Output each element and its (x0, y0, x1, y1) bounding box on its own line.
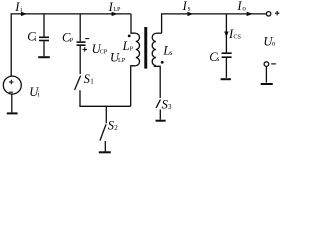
switch S1 (75, 76, 81, 90)
capacitor CP (77, 14, 86, 74)
minus in source (9, 91, 13, 93)
label ICS (228, 27, 242, 41)
output terminal minus (264, 62, 269, 67)
label Ii (14, 0, 22, 14)
ground under source (7, 112, 18, 114)
voltage source Ui (3, 76, 21, 94)
polarity minus of CP (85, 38, 89, 40)
svg-text:i: i (35, 35, 37, 43)
label UCP (92, 42, 108, 56)
label S1 (84, 72, 95, 86)
switch S3 (156, 100, 160, 120)
polarity plus of CP (83, 47, 87, 51)
wire top-left rail (11, 14, 131, 77)
svg-text:LP: LP (118, 57, 126, 64)
polarity dot secondary (161, 61, 164, 64)
svg-text:P: P (130, 45, 134, 52)
transformer core (144, 27, 147, 69)
svg-text:I: I (182, 0, 188, 13)
wire source to ground (11, 94, 13, 113)
label LS (162, 44, 172, 58)
label Is (182, 0, 191, 13)
label S2 (108, 119, 118, 133)
wire ICS branch (225, 14, 227, 53)
output terminal plus (266, 12, 270, 16)
svg-text:CS: CS (233, 33, 241, 40)
wire bottom rail S1 to primary (80, 90, 131, 106)
transformer primary winding LP (131, 14, 140, 106)
ground under S2 (99, 151, 111, 153)
svg-text:s: s (188, 5, 191, 13)
current arrow ILP (112, 12, 118, 16)
label ILP (108, 0, 121, 14)
svg-text:2: 2 (114, 124, 118, 132)
svg-text:i: i (38, 90, 40, 98)
svg-text:CP: CP (100, 48, 108, 55)
svg-text:o: o (272, 40, 276, 48)
svg-text:i: i (20, 5, 22, 13)
capacitor CS (222, 53, 232, 78)
svg-text:L: L (122, 39, 130, 53)
wire secondary top rail (162, 14, 267, 33)
ground under S3 (156, 120, 166, 122)
label Uo (263, 34, 275, 48)
transformer secondary winding LS (152, 33, 161, 98)
svg-text:1: 1 (90, 77, 94, 85)
label Ui (29, 85, 39, 99)
label ULP (110, 51, 126, 65)
switch S2 (100, 106, 106, 151)
ground under minus terminal (261, 83, 273, 85)
current arrow Is (187, 12, 193, 16)
current arrow ICS (224, 32, 228, 38)
ground under CS (221, 78, 231, 80)
ground under Ci (38, 56, 50, 58)
label S3 (162, 98, 172, 112)
label LP (122, 39, 134, 53)
polarity dot primary (128, 35, 131, 38)
label Io (236, 0, 246, 13)
svg-text:s: s (170, 49, 173, 57)
svg-text:o: o (242, 5, 246, 13)
wire minus terminal to ground (265, 67, 267, 83)
svg-text:s: s (217, 55, 220, 63)
capacitor Ci (39, 14, 49, 56)
svg-text:P: P (70, 37, 74, 44)
label CP (62, 31, 74, 45)
plus in source (9, 80, 14, 85)
svg-text:3: 3 (168, 103, 172, 111)
current arrow Io (247, 12, 253, 16)
current arrow Ii (21, 12, 27, 16)
plus sign output (275, 11, 280, 15)
minus sign output (271, 63, 276, 65)
label Ci (27, 30, 37, 44)
svg-text:LP: LP (113, 6, 121, 13)
label CS (209, 50, 220, 64)
